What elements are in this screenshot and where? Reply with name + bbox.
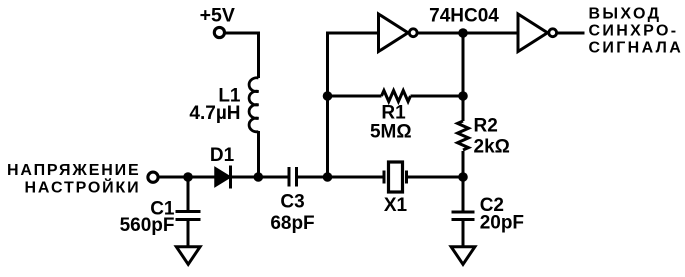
L1 label — [218, 86, 241, 107]
svg-text:5MΩ: 5MΩ — [370, 122, 412, 143]
R1 value 5M ohm — [370, 122, 412, 143]
input terminal (tuning voltage) — [148, 172, 158, 182]
svg-text:ВЫХОД: ВЫХОД — [589, 6, 662, 23]
wire inverter1 output to inverter2 input — [418, 32, 518, 35]
ground (C2) — [451, 247, 475, 265]
L1 value 4.7uH — [189, 103, 240, 124]
inverter U1a (74HC04) — [379, 14, 418, 52]
wire R1 left — [328, 95, 382, 98]
inverter U1b (74HC04) — [518, 14, 557, 52]
wire R2 bottom to main line — [462, 151, 465, 177]
C3 value 68pF — [270, 213, 314, 234]
wire diode cathode to C3 — [231, 176, 290, 179]
C1 label — [150, 199, 175, 220]
C3 label — [280, 192, 304, 213]
svg-text:НАПРЯЖЕНИЕ: НАПРЯЖЕНИЕ — [7, 162, 141, 179]
wire node down to R2 top — [462, 33, 465, 121]
node: C1 junction — [183, 172, 193, 182]
node: oscillator input junction — [323, 172, 333, 182]
+5V supply terminal — [214, 27, 224, 37]
resistor R2 — [458, 121, 469, 150]
label: ВЫХОД СИНХРО-СИГНАЛА — [589, 6, 684, 57]
+5V label — [200, 5, 235, 27]
wire R1 right — [411, 95, 464, 98]
wire C1 bottom plate to ground — [187, 220, 190, 249]
wire input terminal to diode anode — [159, 176, 215, 179]
svg-text:СИГНАЛА: СИГНАЛА — [589, 39, 684, 56]
crystal X1 — [384, 162, 407, 192]
svg-text:20pF: 20pF — [480, 213, 524, 234]
svg-text:68pF: 68pF — [270, 213, 314, 234]
R2 value 2k ohm — [474, 137, 510, 158]
node: inverter1 output junction — [458, 28, 468, 38]
74HC04 label — [429, 6, 499, 27]
svg-text:2kΩ: 2kΩ — [474, 137, 510, 158]
inductor L1 — [249, 78, 258, 132]
C1 value 560pF — [120, 215, 175, 236]
wire feedback: main node up to inverter input — [328, 33, 379, 177]
wire C2 bottom plate to ground — [462, 220, 465, 249]
wire inverter2 output — [558, 32, 585, 35]
label: НАПРЯЖЕНИЕ НАСТРОЙКИ — [7, 162, 141, 196]
svg-text:C3: C3 — [280, 192, 304, 213]
svg-text:74HC04: 74HC04 — [429, 6, 499, 27]
node: R2 top junction — [458, 91, 468, 101]
node: L1 junction — [253, 172, 263, 182]
wire X1 to C2 node — [407, 176, 464, 179]
D1 label — [210, 145, 235, 166]
resistor R1 — [382, 91, 411, 102]
wire +5V terminal to L1 top — [225, 33, 259, 78]
node: R1 left junction — [323, 91, 333, 101]
capacitor C2 — [452, 212, 475, 220]
node: C2 junction — [458, 172, 468, 182]
R2 label — [474, 115, 498, 136]
X1 label — [384, 195, 408, 216]
svg-text:4.7µH: 4.7µH — [189, 103, 240, 124]
svg-text:X1: X1 — [384, 195, 408, 216]
wire C2 node down to C2 top plate — [462, 177, 465, 212]
wire C1 junction down to C1 top plate — [187, 177, 190, 211]
wire L1 bottom to main node — [257, 131, 260, 177]
svg-text:D1: D1 — [210, 145, 235, 166]
svg-text:R2: R2 — [474, 115, 498, 136]
C2 value 20pF — [480, 213, 524, 234]
capacitor C3 — [289, 167, 297, 187]
svg-text:560pF: 560pF — [120, 215, 175, 236]
ground (C1) — [176, 247, 200, 265]
diode D1 — [215, 166, 231, 189]
C2 label — [480, 195, 504, 216]
svg-text:НАСТРОЙКИ: НАСТРОЙКИ — [25, 177, 141, 196]
svg-text:+5V: +5V — [200, 5, 235, 27]
capacitor C1 — [176, 212, 201, 220]
wire C3 to crystal X1 — [297, 176, 385, 179]
R1 label — [381, 103, 406, 124]
svg-text:СИНХРО-: СИНХРО- — [589, 23, 679, 40]
